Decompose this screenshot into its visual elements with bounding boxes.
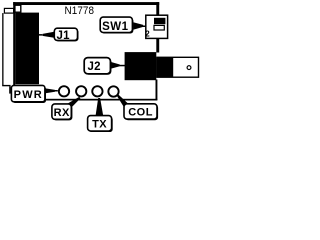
label PWR bbox=[11, 85, 57, 103]
wire board top edge bbox=[13, 2, 159, 5]
svg-text:J2: J2 bbox=[87, 61, 100, 73]
LED RX bbox=[76, 86, 86, 96]
BNC barrel bbox=[157, 57, 199, 77]
svg-text:RX: RX bbox=[54, 107, 70, 119]
svg-text:J1: J1 bbox=[56, 30, 70, 42]
LED TX bbox=[92, 86, 102, 96]
connector J1 tab bbox=[15, 5, 21, 12]
wire board bottom edge bbox=[39, 99, 157, 101]
wire board left edge bbox=[13, 2, 15, 90]
BNC tip hole bbox=[187, 66, 191, 70]
label SW1 bbox=[100, 17, 146, 33]
svg-text:SW1: SW1 bbox=[102, 21, 129, 33]
wire board right edge lower bbox=[156, 80, 158, 100]
connector J1 body bbox=[15, 13, 39, 85]
wire board right edge mid bbox=[156, 38, 159, 52]
LED PWR bbox=[59, 86, 69, 96]
transformer block J2 bbox=[125, 52, 157, 80]
switch SW1 component bbox=[145, 15, 167, 38]
label J2 bbox=[84, 58, 125, 75]
label RX bbox=[52, 97, 81, 121]
svg-text:N1778: N1778 bbox=[65, 6, 95, 18]
svg-text:TX: TX bbox=[92, 119, 107, 131]
svg-text:PWR: PWR bbox=[14, 89, 43, 101]
LED COL bbox=[108, 86, 118, 96]
svg-text:2: 2 bbox=[145, 29, 150, 38]
label J1 bbox=[39, 28, 79, 42]
svg-text:COL: COL bbox=[128, 107, 153, 119]
label TX bbox=[88, 98, 113, 132]
bracket bbox=[2, 8, 13, 93]
BNC neck bbox=[156, 58, 173, 77]
wire board right edge upper bbox=[156, 2, 159, 15]
label COL bbox=[117, 94, 158, 120]
